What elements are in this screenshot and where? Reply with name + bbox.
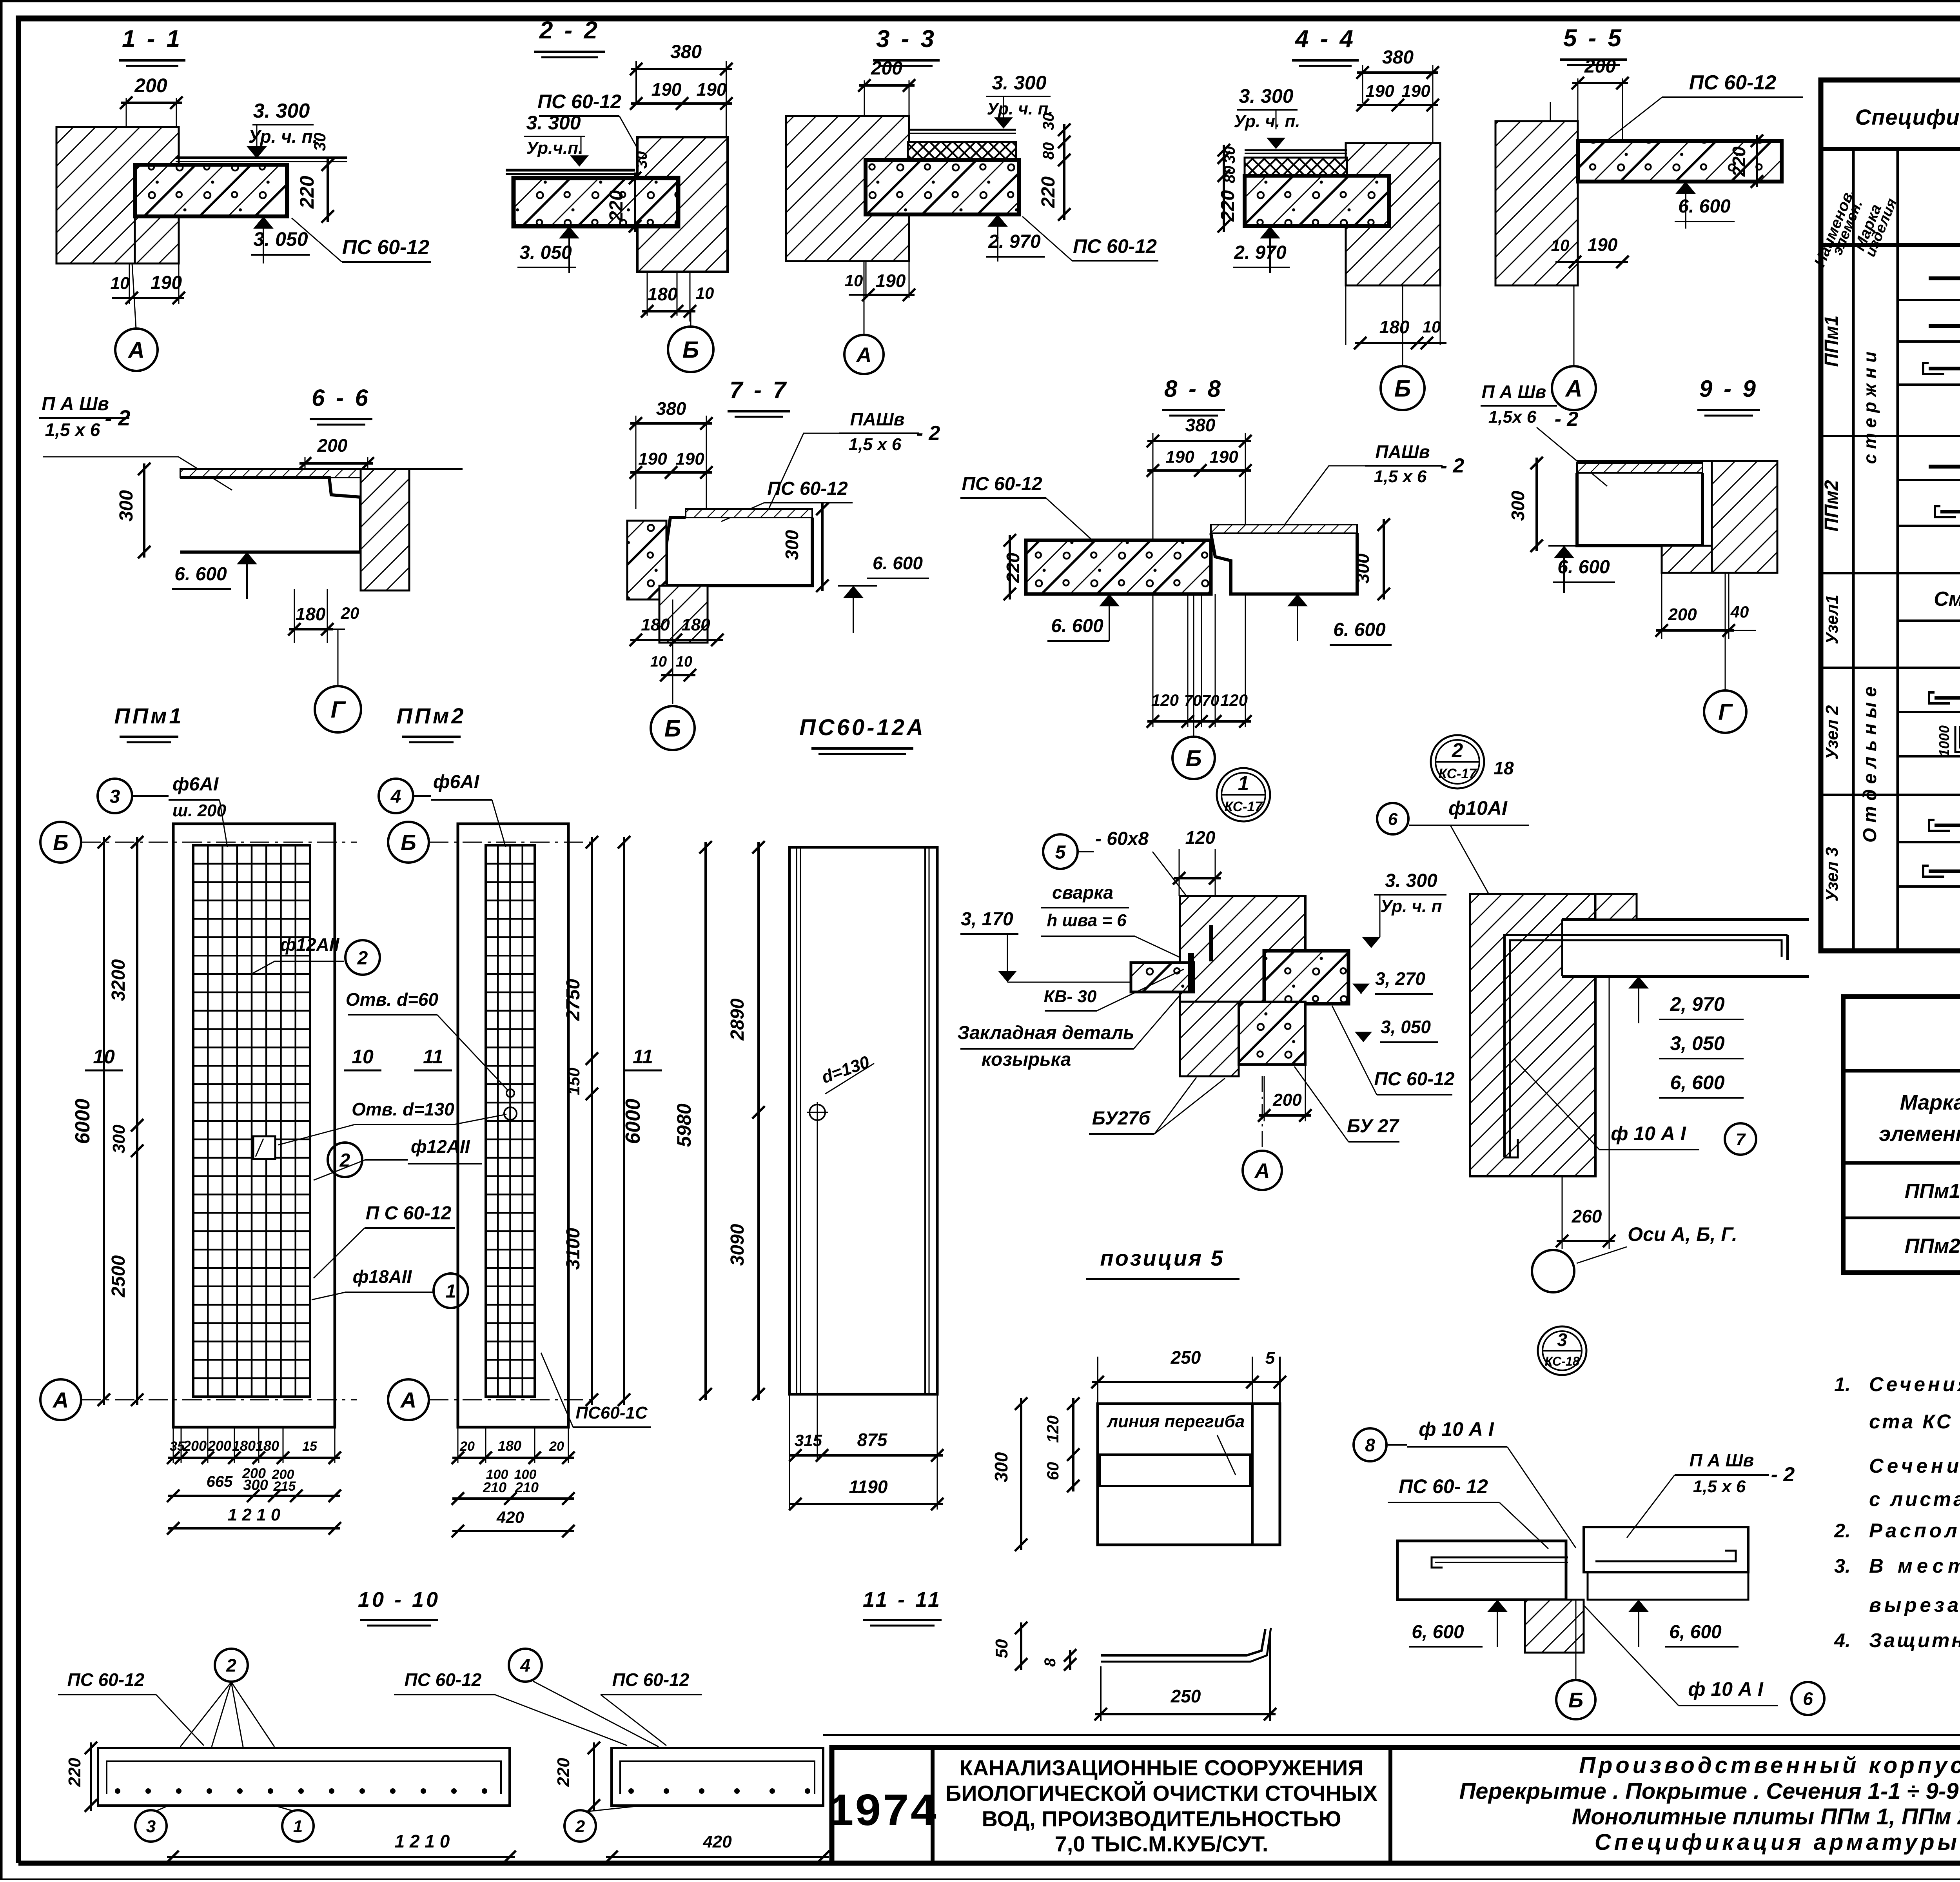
svg-text:10: 10 [93, 1046, 115, 1068]
svg-text:6, 600: 6, 600 [1669, 1622, 1722, 1642]
svg-text:190: 190 [1588, 234, 1618, 255]
svg-text:420: 420 [496, 1508, 524, 1526]
svg-text:2. 970: 2. 970 [988, 231, 1041, 252]
svg-text:Г: Г [1718, 699, 1733, 725]
svg-text:190: 190 [876, 271, 906, 291]
svg-text:1: 1 [1238, 772, 1249, 794]
svg-text:ПС 60-12: ПС 60-12 [1073, 235, 1157, 257]
svg-text:3200: 3200 [108, 959, 129, 1001]
svg-text:2: 2 [226, 1655, 236, 1676]
svg-text:180: 180 [232, 1438, 256, 1454]
svg-text:200: 200 [871, 58, 902, 79]
svg-text:20: 20 [459, 1439, 475, 1454]
svg-text:1 2 1 0: 1 2 1 0 [228, 1505, 281, 1524]
svg-text:А: А [856, 343, 872, 367]
svg-text:БУ27б: БУ27б [1092, 1108, 1151, 1129]
svg-text:Ур. ч. п: Ур. ч. п [1380, 897, 1442, 916]
svg-text:10: 10 [1551, 236, 1570, 254]
svg-text:220: 220 [554, 1758, 573, 1787]
svg-text:Б: Б [53, 830, 69, 855]
svg-text:380: 380 [1185, 415, 1216, 435]
svg-text:Отв. d=60: Отв. d=60 [346, 989, 439, 1010]
svg-text:420: 420 [702, 1832, 732, 1851]
svg-text:ПС 60-12: ПС 60-12 [612, 1669, 690, 1690]
svg-text:ф12АII: ф12АII [280, 934, 340, 955]
svg-text:3. 300: 3. 300 [992, 72, 1046, 94]
svg-text:180: 180 [641, 615, 670, 634]
svg-text:6000: 6000 [622, 1099, 644, 1144]
svg-text:200: 200 [1272, 1090, 1302, 1110]
svg-text:7 - 7: 7 - 7 [730, 377, 788, 403]
svg-text:9 - 9: 9 - 9 [1699, 376, 1758, 402]
svg-text:ПС 60-12: ПС 60-12 [767, 478, 848, 499]
svg-text:ПС 60- 12: ПС 60- 12 [1399, 1475, 1488, 1497]
svg-text:1000: 1000 [1936, 725, 1952, 757]
svg-text:6. 600: 6. 600 [1557, 557, 1610, 578]
svg-text:6. 600: 6. 600 [873, 553, 923, 573]
svg-text:В месте отверстия арматуру: В месте отверстия арматуру плиты ППм1 [1869, 1555, 1960, 1577]
svg-text:6, 600: 6, 600 [1670, 1072, 1724, 1094]
svg-text:380: 380 [656, 398, 686, 419]
svg-text:П А Шв: П А Шв [42, 394, 109, 414]
svg-text:3, 050: 3, 050 [1670, 1032, 1724, 1054]
svg-text:козырька: козырька [982, 1049, 1071, 1070]
svg-text:6. 600: 6. 600 [1678, 196, 1731, 217]
svg-text:А: А [127, 338, 145, 363]
svg-text:70: 70 [1202, 692, 1220, 709]
svg-text:ППм1: ППм1 [1905, 1180, 1960, 1203]
svg-text:1,5 х 6: 1,5 х 6 [1374, 467, 1427, 486]
svg-text:2: 2 [575, 1817, 585, 1836]
svg-text:11 - 11: 11 - 11 [863, 1588, 942, 1611]
svg-text:5: 5 [1055, 842, 1066, 863]
svg-text:Оси А, Б, Г.: Оси А, Б, Г. [1628, 1223, 1737, 1245]
svg-text:220: 220 [1038, 176, 1059, 208]
svg-text:А: А [400, 1388, 416, 1412]
svg-text:2: 2 [357, 948, 368, 968]
svg-text:Ур. ч. п.: Ур. ч. п. [1234, 112, 1300, 131]
svg-text:120: 120 [1044, 1415, 1062, 1443]
svg-text:ф 10 А I: ф 10 А I [1688, 1678, 1764, 1700]
svg-text:3: 3 [1557, 1330, 1567, 1350]
svg-text:3. 050: 3. 050 [519, 242, 572, 263]
svg-text:6: 6 [1388, 810, 1398, 829]
svg-text:250: 250 [1171, 1686, 1201, 1706]
svg-text:180: 180 [296, 604, 326, 624]
svg-text:20: 20 [341, 604, 359, 622]
svg-text:1: 1 [293, 1817, 303, 1836]
svg-text:Марка: Марка [1900, 1091, 1960, 1114]
svg-text:215: 215 [273, 1479, 296, 1494]
svg-text:Отв. d=130: Отв. d=130 [352, 1099, 454, 1119]
svg-text:3. 050: 3. 050 [253, 228, 308, 250]
svg-text:8: 8 [1042, 1658, 1059, 1667]
svg-text:А: А [1564, 376, 1582, 402]
svg-text:ш. 200: ш. 200 [172, 801, 227, 820]
svg-text:5: 5 [1265, 1348, 1275, 1368]
svg-text:КАНАЛИЗАЦИОННЫЕ СООРУЖЕНИЯ: КАНАЛИЗАЦИОННЫЕ СООРУЖЕНИЯ [959, 1755, 1363, 1780]
svg-text:- 2: - 2 [1441, 454, 1465, 477]
svg-text:2750: 2750 [563, 979, 584, 1021]
svg-text:10: 10 [1423, 318, 1441, 336]
svg-text:190: 190 [1401, 82, 1430, 101]
svg-text:60: 60 [1044, 1462, 1062, 1481]
svg-text:Б: Б [1185, 746, 1201, 771]
svg-text:200: 200 [317, 435, 348, 456]
svg-text:6, 600: 6, 600 [1412, 1622, 1464, 1642]
svg-text:ПС 60-12: ПС 60-12 [1374, 1069, 1455, 1090]
svg-text:3, 050: 3, 050 [1381, 1017, 1431, 1037]
svg-text:4 - 4: 4 - 4 [1294, 25, 1356, 53]
svg-text:300: 300 [1508, 490, 1528, 521]
svg-text:6. 600: 6. 600 [1051, 616, 1103, 636]
svg-text:ПАШв: ПАШв [1375, 441, 1430, 462]
svg-text:2, 970: 2, 970 [1670, 993, 1724, 1015]
svg-text:ПС 60-12: ПС 60-12 [537, 91, 621, 113]
svg-text:80: 80 [1040, 142, 1057, 160]
svg-text:250: 250 [1171, 1347, 1201, 1368]
svg-text:4: 4 [520, 1655, 530, 1676]
svg-text:200: 200 [1668, 605, 1697, 624]
svg-text:ста КС - 17, монтажные узлы: ста КС - 17, монтажные узлы 2 - с листа … [1869, 1410, 1960, 1433]
svg-text:190: 190 [1165, 447, 1194, 467]
svg-text:3.: 3. [1834, 1555, 1851, 1577]
svg-text:- 2: - 2 [1555, 408, 1579, 431]
svg-text:ППм1: ППм1 [1821, 315, 1842, 367]
svg-text:2. 970: 2. 970 [1234, 242, 1287, 263]
svg-text:180: 180 [648, 284, 678, 304]
svg-text:О т д е л ь н ы е: О т д е л ь н ы е [1860, 687, 1880, 843]
svg-text:вырезать по месту.: вырезать по месту. [1869, 1594, 1960, 1616]
svg-text:Защитный слой бетона для: Защитный слой бетона для рабочей арматур… [1869, 1629, 1960, 1651]
svg-text:Сечения 1-1÷4-4 и монтажные: Сечения 1-1÷4-4 и монтажные узлы 1 снесе… [1869, 1373, 1960, 1395]
svg-text:210: 210 [483, 1479, 506, 1495]
svg-text:2 - 2: 2 - 2 [539, 17, 600, 44]
svg-text:Б: Б [664, 716, 681, 742]
svg-text:ф18АII: ф18АII [353, 1266, 412, 1287]
svg-text:875: 875 [857, 1430, 888, 1450]
svg-text:260: 260 [1572, 1206, 1602, 1226]
svg-text:- 2: - 2 [1771, 1463, 1795, 1486]
svg-text:300: 300 [782, 530, 802, 560]
svg-text:380: 380 [1382, 47, 1414, 68]
svg-text:190: 190 [675, 449, 704, 469]
svg-text:18: 18 [1494, 758, 1514, 778]
svg-text:с т е р ж н и: с т е р ж н и [1860, 352, 1880, 464]
svg-text:10: 10 [676, 654, 692, 670]
svg-text:1 2 1 0: 1 2 1 0 [395, 1831, 450, 1851]
svg-text:ППм1: ППм1 [114, 703, 183, 728]
svg-text:Б: Б [401, 830, 416, 855]
svg-text:220: 220 [1218, 190, 1238, 222]
svg-text:180: 180 [681, 615, 710, 634]
svg-text:3. 300: 3. 300 [1239, 85, 1293, 107]
svg-text:Монолитные плиты ППм 1,: Монолитные плиты ППм 1, ППм 2 . [1572, 1804, 1960, 1829]
svg-text:ПС 60-12: ПС 60-12 [67, 1669, 145, 1690]
svg-text:190: 190 [638, 449, 667, 469]
svg-text:А: А [1254, 1159, 1270, 1183]
svg-text:ф12АII: ф12АII [411, 1136, 470, 1157]
svg-text:1190: 1190 [849, 1477, 888, 1497]
svg-text:Б: Б [1394, 376, 1411, 402]
svg-text:1: 1 [446, 1281, 456, 1302]
svg-text:8 - 8: 8 - 8 [1164, 376, 1223, 402]
svg-text:315: 315 [795, 1431, 822, 1450]
svg-text:ПС 60-12: ПС 60-12 [962, 474, 1042, 494]
svg-text:Сечения 5-5 ÷ 9-9 и монтажны: Сечения 5-5 ÷ 9-9 и монтажные узлы 3 сне… [1869, 1455, 1960, 1477]
svg-text:Расположение плит ППм1, ППм2: Расположение плит ППм1, ППм2 см. лист КС… [1869, 1519, 1960, 1542]
svg-text:Закладная деталь: Закладная деталь [957, 1023, 1134, 1043]
svg-text:ПС60-1С: ПС60-1С [575, 1403, 648, 1422]
svg-text:1,5 х 6: 1,5 х 6 [849, 435, 902, 454]
svg-text:4.: 4. [1834, 1629, 1851, 1651]
svg-text:380: 380 [670, 42, 702, 62]
svg-text:П А Шв: П А Шв [1482, 381, 1546, 402]
svg-text:1 - 1: 1 - 1 [122, 25, 182, 53]
svg-text:30: 30 [633, 151, 650, 169]
svg-text:120: 120 [1185, 827, 1216, 848]
svg-text:300: 300 [1352, 553, 1373, 583]
svg-text:6: 6 [1803, 1689, 1813, 1709]
svg-text:ф6АI: ф6АI [433, 772, 480, 792]
svg-text:КС-17: КС-17 [1225, 799, 1263, 814]
svg-text:ф10АI: ф10АI [1448, 797, 1508, 819]
svg-text:10: 10 [111, 274, 130, 293]
svg-text:- 2: - 2 [105, 405, 130, 430]
svg-text:10 - 10: 10 - 10 [358, 1588, 440, 1611]
svg-text:БИОЛОГИЧЕСКОЙ ОЧИСТКИ СТОЧНЫХ: БИОЛОГИЧЕСКОЙ ОЧИСТКИ СТОЧНЫХ [946, 1781, 1377, 1806]
svg-text:ПС 60-12: ПС 60-12 [342, 236, 429, 259]
svg-text:См чертеж: См чертеж [1934, 588, 1960, 610]
svg-text:190: 190 [697, 79, 727, 100]
svg-text:2: 2 [1452, 739, 1463, 761]
svg-text:6. 600: 6. 600 [174, 564, 227, 585]
svg-text:200: 200 [207, 1438, 231, 1454]
svg-text:6000: 6000 [71, 1099, 94, 1144]
svg-text:180: 180 [498, 1438, 521, 1454]
svg-text:П А Шв: П А Шв [1690, 1450, 1754, 1470]
svg-text:70: 70 [1184, 692, 1202, 709]
svg-text:- 2: - 2 [916, 422, 940, 445]
svg-text:11: 11 [633, 1046, 653, 1068]
svg-text:3 - 3: 3 - 3 [876, 25, 936, 53]
svg-text:8: 8 [1365, 1435, 1375, 1455]
svg-text:6 - 6: 6 - 6 [312, 385, 370, 411]
svg-text:1974: 1974 [826, 1787, 937, 1839]
svg-text:Б: Б [682, 337, 699, 363]
svg-text:3. 300: 3. 300 [526, 112, 581, 134]
svg-text:ф 10 А I: ф 10 А I [1611, 1123, 1686, 1144]
svg-text:4: 4 [390, 786, 401, 807]
svg-text:ППм2: ППм2 [396, 703, 466, 728]
svg-text:3. 300: 3. 300 [1385, 870, 1437, 891]
svg-text:3: 3 [110, 786, 120, 807]
svg-text:7: 7 [1736, 1130, 1746, 1149]
svg-text:2890: 2890 [727, 998, 748, 1041]
svg-text:h шва = 6: h шва = 6 [1047, 911, 1127, 930]
svg-text:665: 665 [207, 1473, 233, 1490]
svg-text:220: 220 [65, 1758, 84, 1787]
svg-text:30: 30 [310, 133, 329, 151]
svg-text:Производственный корпус.: Производственный корпус. [1579, 1753, 1960, 1778]
svg-text:190: 190 [1209, 447, 1238, 467]
svg-text:1.: 1. [1834, 1373, 1851, 1395]
svg-text:П С 60-12: П С 60-12 [366, 1203, 452, 1224]
svg-text:Перекрытие . Покрытие . Сече: Перекрытие . Покрытие . Сечения 1-1 ÷ 9-… [1459, 1778, 1960, 1804]
svg-text:3. 300: 3. 300 [253, 100, 310, 122]
svg-text:220: 220 [1003, 552, 1023, 583]
svg-text:ф 10 А I: ф 10 А I [1419, 1418, 1494, 1440]
svg-text:15: 15 [302, 1439, 318, 1454]
svg-text:1,5х 6: 1,5х 6 [1488, 407, 1537, 427]
svg-text:3100: 3100 [563, 1228, 584, 1270]
svg-text:11: 11 [423, 1046, 443, 1068]
svg-text:А: А [52, 1388, 69, 1412]
svg-text:220: 220 [606, 190, 627, 222]
svg-text:Узел1: Узел1 [1822, 595, 1842, 645]
svg-text:300: 300 [109, 1124, 129, 1154]
svg-text:позиция 5: позиция 5 [1100, 1246, 1224, 1270]
svg-text:300: 300 [991, 1452, 1011, 1482]
svg-text:Узел 3: Узел 3 [1822, 847, 1842, 901]
svg-text:с листа КС- 18.: с листа КС- 18. [1869, 1488, 1960, 1510]
svg-text:3, 170: 3, 170 [961, 909, 1013, 930]
svg-text:120: 120 [1151, 691, 1179, 709]
svg-text:Узел 2: Узел 2 [1822, 705, 1842, 760]
svg-text:6. 600: 6. 600 [1333, 619, 1386, 640]
svg-text:ПС 60-12: ПС 60-12 [1689, 71, 1776, 94]
svg-text:Спецификация арматуры на оди: Спецификация арматуры на один элемент [1855, 105, 1960, 129]
svg-text:ПС60-12А: ПС60-12А [799, 715, 926, 740]
svg-text:ПС 60-12: ПС 60-12 [405, 1669, 482, 1690]
svg-text:КС-17: КС-17 [1439, 766, 1477, 781]
svg-text:ВОД, ПРОИЗВОДИТЕЛЬНОСТЬЮ: ВОД, ПРОИЗВОДИТЕЛЬНОСТЬЮ [982, 1806, 1341, 1831]
svg-text:5980: 5980 [673, 1103, 695, 1147]
svg-text:300: 300 [243, 1477, 268, 1493]
svg-text:2.: 2. [1834, 1520, 1851, 1542]
svg-text:220: 220 [1729, 146, 1749, 177]
svg-text:10: 10 [650, 654, 667, 670]
svg-text:50: 50 [992, 1639, 1011, 1658]
svg-text:120: 120 [1220, 691, 1248, 709]
svg-text:220: 220 [296, 176, 318, 209]
svg-text:40: 40 [1730, 603, 1749, 621]
svg-text:190: 190 [652, 79, 682, 100]
svg-text:элемента: элемента [1879, 1122, 1960, 1146]
svg-text:190: 190 [151, 272, 182, 293]
svg-text:ППм2: ППм2 [1821, 480, 1842, 532]
svg-text:150: 150 [564, 1068, 583, 1095]
svg-text:сварка: сварка [1052, 882, 1113, 903]
svg-text:ф6АI: ф6АI [172, 774, 219, 795]
svg-text:5 - 5: 5 - 5 [1563, 25, 1624, 52]
svg-text:КВ- 30: КВ- 30 [1044, 987, 1097, 1006]
svg-text:КС-18: КС-18 [1545, 1354, 1580, 1368]
svg-text:10: 10 [696, 284, 714, 302]
svg-text:- 60х8: - 60х8 [1095, 828, 1149, 849]
svg-text:7,0 ТЫС.М.КУБ/СУТ.: 7,0 ТЫС.М.КУБ/СУТ. [1055, 1831, 1269, 1856]
svg-text:200: 200 [1584, 56, 1616, 77]
svg-text:линия перегиба: линия перегиба [1107, 1412, 1245, 1431]
svg-text:1,5 х 6: 1,5 х 6 [1693, 1477, 1746, 1496]
svg-text:190: 190 [1365, 82, 1394, 101]
svg-text:10: 10 [845, 271, 863, 290]
svg-text:20: 20 [549, 1439, 564, 1454]
svg-text:3: 3 [146, 1817, 156, 1836]
svg-text:Г: Г [331, 697, 347, 723]
svg-text:Спецификация арматуры: Спецификация арматуры [1595, 1829, 1960, 1855]
svg-text:210: 210 [515, 1479, 539, 1495]
svg-text:ППм2: ППм2 [1905, 1235, 1960, 1257]
svg-text:2500: 2500 [108, 1255, 129, 1297]
svg-text:200: 200 [134, 74, 167, 96]
svg-text:БУ 27: БУ 27 [1347, 1116, 1399, 1137]
svg-text:1,5 х 6: 1,5 х 6 [45, 420, 100, 440]
svg-text:10: 10 [352, 1046, 374, 1068]
svg-text:3090: 3090 [727, 1224, 748, 1266]
svg-text:Б: Б [1568, 1688, 1583, 1712]
svg-text:Ур. ч. п.: Ур. ч. п. [249, 126, 318, 147]
svg-text:3, 270: 3, 270 [1375, 968, 1425, 989]
svg-text:Ур.ч.п.: Ур.ч.п. [526, 138, 583, 158]
svg-text:300: 300 [116, 490, 137, 521]
svg-text:180: 180 [1379, 317, 1410, 337]
svg-text:ПАШв: ПАШв [850, 409, 904, 429]
svg-text:30: 30 [1040, 113, 1057, 131]
